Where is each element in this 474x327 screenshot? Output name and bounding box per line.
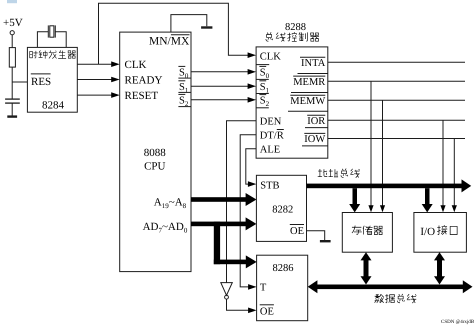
wire ALE to STB of 8282 bbox=[246, 149, 257, 187]
I/O interface block bbox=[414, 213, 467, 253]
svg-text:DT/R: DT/R bbox=[260, 130, 284, 141]
ground bbox=[7, 115, 17, 117]
ground at MN/MX bbox=[201, 26, 212, 28]
clock generator U2 8284 bbox=[27, 47, 77, 112]
wire MEMR bbox=[328, 81, 465, 212]
pin CLK of 8288 bbox=[256, 51, 281, 64]
svg-text:RESET: RESET bbox=[125, 90, 159, 102]
wire RES input to 8284 bbox=[12, 81, 27, 83]
pin IOR of 8288 bbox=[305, 115, 328, 127]
wire OE 8282 to ground bbox=[307, 231, 325, 240]
CPU U1 8088 bbox=[120, 32, 191, 272]
bus A19~A8 to 8282 bbox=[191, 193, 256, 206]
bus AD branch to 8286 bbox=[214, 222, 257, 269]
svg-text:STB: STB bbox=[260, 180, 279, 191]
wire S1 8088 to 8288 bbox=[191, 83, 256, 89]
bus controller U3 8288 bbox=[256, 22, 328, 158]
address bus bbox=[307, 179, 472, 192]
svg-text:CLK: CLK bbox=[125, 59, 147, 71]
resistor R1 bbox=[9, 48, 15, 68]
wire CLK top route to 8288 bbox=[99, 3, 257, 64]
wire inverter to OE of 8286 bbox=[227, 299, 257, 313]
bus address to memory bbox=[349, 188, 360, 212]
transceiver U5 8286 bbox=[257, 255, 308, 321]
svg-text:8288: 8288 bbox=[285, 22, 306, 33]
label data bus bbox=[375, 294, 417, 303]
svg-text:OE: OE bbox=[260, 307, 274, 318]
crystal X1 bbox=[37, 25, 66, 47]
wire capacitor to ground bbox=[11, 103, 13, 115]
svg-text:8282: 8282 bbox=[272, 204, 293, 215]
wire INTA bbox=[328, 61, 465, 63]
bus memory to data bus bbox=[361, 252, 372, 284]
svg-text:INTA: INTA bbox=[301, 58, 326, 69]
wire MEMW bbox=[328, 100, 465, 212]
wire CLK 8284 to 8088 bbox=[77, 61, 119, 67]
svg-text:IOR: IOR bbox=[307, 116, 325, 127]
pin S1 of 8288 bbox=[256, 81, 270, 95]
wire READY 8284 to 8088 bbox=[77, 77, 119, 83]
svg-text:T: T bbox=[260, 283, 267, 294]
wire resistor to capacitor bbox=[11, 67, 13, 99]
svg-text:OE: OE bbox=[290, 226, 304, 237]
memory block bbox=[342, 213, 392, 253]
svg-text:CSDN @4rxjdB: CSDN @4rxjdB bbox=[441, 319, 474, 325]
capacitor C1 bbox=[5, 99, 20, 103]
svg-text:8284: 8284 bbox=[42, 100, 65, 112]
svg-text:MN/MX: MN/MX bbox=[149, 35, 190, 47]
wire RESET 8284 to 8088 bbox=[77, 92, 119, 98]
svg-text:AD7~AD0: AD7~AD0 bbox=[143, 221, 188, 234]
pin MEMR of 8288 bbox=[291, 76, 328, 92]
svg-text:8286: 8286 bbox=[273, 263, 294, 274]
node +5V bbox=[3, 17, 23, 35]
svg-text:RES: RES bbox=[31, 76, 51, 88]
data bus bbox=[308, 280, 473, 293]
ground at 8282 OE bbox=[320, 240, 331, 242]
wire IOW bbox=[328, 139, 465, 213]
pin IOW of 8288 bbox=[302, 133, 328, 146]
svg-text:MEMR: MEMR bbox=[293, 77, 325, 88]
pin S1 of 8088 bbox=[178, 81, 191, 95]
wire S0 8088 to 8288 bbox=[191, 69, 256, 75]
pin S2 of 8288 bbox=[256, 95, 270, 108]
svg-text:+5V: +5V bbox=[3, 17, 23, 29]
latch U4 8282 bbox=[256, 175, 306, 241]
svg-text:CPU: CPU bbox=[144, 161, 165, 173]
bus address to IO bbox=[422, 188, 433, 212]
inverter U6 bbox=[221, 283, 233, 300]
wire IOR bbox=[328, 120, 465, 212]
pin S2 of 8088 bbox=[178, 94, 191, 108]
svg-text:ALE: ALE bbox=[260, 145, 280, 156]
wire +5V to resistor bbox=[11, 35, 13, 48]
bus AD7~AD0 to 8282 bbox=[191, 217, 256, 230]
svg-text:A19~A8: A19~A8 bbox=[154, 196, 187, 209]
watermark artifact top-left bbox=[7, 0, 17, 3]
svg-text:IOW: IOW bbox=[304, 134, 325, 145]
wire MN/MX to ground bbox=[171, 15, 207, 32]
label address bus bbox=[318, 169, 360, 178]
wire DT/R to T of 8286 bbox=[240, 135, 256, 290]
pin MEMW of 8288 bbox=[288, 95, 328, 111]
svg-text:READY: READY bbox=[125, 74, 163, 86]
pin S0 of 8288 bbox=[256, 66, 270, 80]
wire DEN to inverter bbox=[227, 121, 257, 283]
bus IO to data bus bbox=[434, 252, 445, 284]
pin INTA of 8288 bbox=[298, 57, 328, 73]
svg-text:DEN: DEN bbox=[260, 117, 282, 128]
svg-text:I/O: I/O bbox=[420, 226, 435, 238]
wire S2 8088 to 8288 bbox=[191, 97, 256, 103]
svg-text:8088: 8088 bbox=[144, 147, 167, 159]
pin S0 of 8088 bbox=[178, 66, 191, 80]
svg-text:MEMW: MEMW bbox=[290, 96, 325, 107]
pin DT/R of 8288 bbox=[260, 130, 284, 142]
svg-text:CLK: CLK bbox=[260, 51, 281, 62]
